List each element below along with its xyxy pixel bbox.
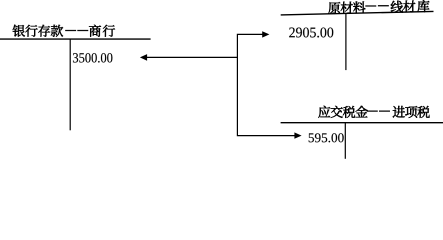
arrowhead pointing right into 2905.00 xyxy=(262,31,269,37)
T-account bottom-right: center vertical rule xyxy=(344,123,346,159)
T-account bottom-right (tax payable): top rule xyxy=(281,122,443,124)
value 3500.00 (credit side of left account) xyxy=(73,53,112,63)
label: top-right account title 原材料——线材库 xyxy=(328,0,429,14)
arrowhead pointing left into 3500.00 xyxy=(140,54,147,61)
wire: branch trunk with elbows (top arrow shaft, vertical trunk, bottom arrow shaft) xyxy=(237,34,295,135)
arrowhead pointing right into 595.00 xyxy=(294,132,301,138)
T-account top-right (raw materials): top rule, slightly sloped xyxy=(281,11,434,15)
value 595.00 (debit side of bottom-right account) xyxy=(309,133,344,142)
value 2905.00 (debit side of top-right account) xyxy=(289,27,333,37)
T-account left: center vertical rule xyxy=(69,39,71,131)
label: bottom-right account title 应交税金——进项税 xyxy=(318,106,429,118)
T-account left (bank deposit): top rule xyxy=(0,38,151,40)
wire: left arrow shaft from trunk toward 3500.00 xyxy=(147,56,238,58)
T-account top-right: center vertical rule xyxy=(345,13,347,70)
label: left account title 银行存款——商行 xyxy=(13,25,115,37)
